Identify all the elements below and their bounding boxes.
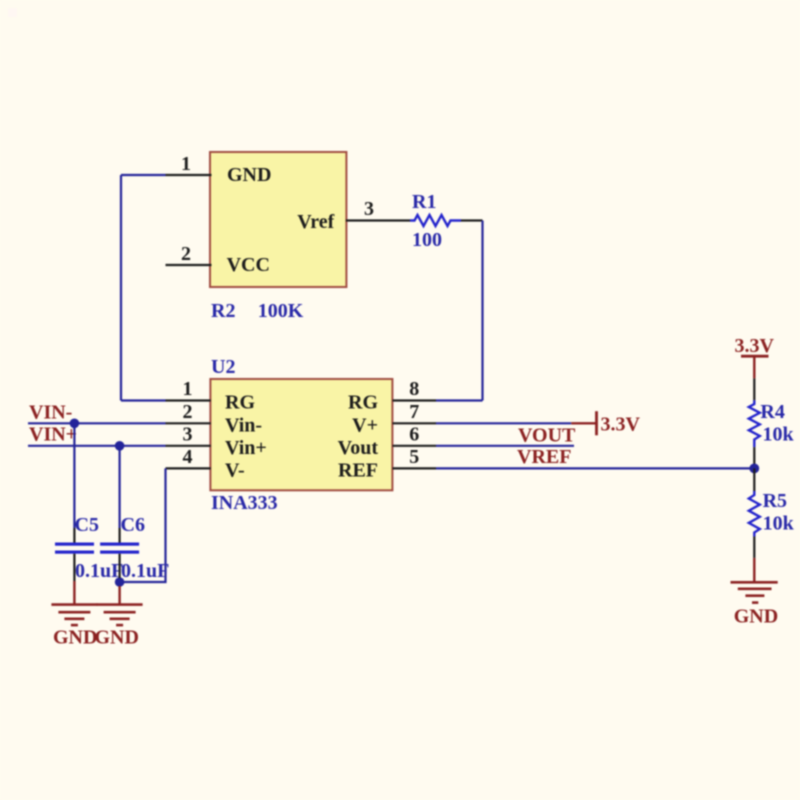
wire VIN+ dot down to C6	[118, 446, 120, 528]
svg-text:2: 2	[183, 401, 193, 423]
R2 pin 1 stub	[166, 174, 212, 176]
wire into U2 pin1	[121, 399, 166, 401]
svg-text:0.1uF: 0.1uF	[121, 560, 169, 582]
wire U2 pin6 VOUT	[436, 445, 574, 447]
svg-text:Vref: Vref	[297, 211, 334, 233]
capacitor C5 bottom pin	[73, 554, 75, 581]
wire U2 pin7 to 3.3V	[436, 422, 571, 424]
capacitor C5 top pin	[73, 528, 75, 543]
U2 pin 1 stub	[166, 399, 211, 401]
svg-text:R1: R1	[412, 191, 436, 213]
svg-text:RG: RG	[225, 392, 255, 414]
svg-text:INA333: INA333	[211, 492, 278, 514]
capacitor C6 plates	[100, 543, 139, 554]
svg-text:3.3V: 3.3V	[601, 414, 641, 436]
wire vertical down to U2 pin8	[481, 221, 483, 401]
svg-text:VOUT: VOUT	[518, 425, 576, 447]
svg-text:C5: C5	[75, 514, 99, 536]
svg-text:3: 3	[183, 423, 193, 445]
R2 pin 3 stub	[346, 219, 410, 221]
capacitor C5 plates	[55, 543, 94, 554]
wire into U2 pin8	[436, 399, 483, 401]
power port 3.3V stem (top right)	[753, 356, 755, 378]
power port 3.3V bar	[595, 411, 598, 435]
svg-text:R4: R4	[760, 401, 784, 423]
svg-text:Vin+: Vin+	[225, 437, 267, 459]
svg-text:VREF: VREF	[517, 446, 571, 468]
svg-text:REF: REF	[338, 459, 378, 481]
svg-text:6: 6	[409, 423, 419, 445]
junction dot VREF divider	[749, 464, 759, 474]
power port 3.3V lead	[571, 422, 596, 424]
ground power port stem (right)	[753, 558, 755, 582]
IC U2 body	[210, 379, 392, 490]
svg-text:100: 100	[412, 229, 442, 251]
ground power port C5 stem	[73, 581, 75, 605]
svg-text:VIN-: VIN-	[29, 402, 72, 424]
wire R1 right black	[461, 219, 483, 221]
svg-text:V+: V+	[352, 414, 378, 436]
svg-text:10k: 10k	[763, 424, 795, 446]
svg-text:2: 2	[181, 243, 191, 265]
svg-text:1: 1	[183, 378, 193, 400]
svg-text:8: 8	[409, 378, 419, 400]
ground power port C6 stem	[118, 586, 120, 605]
wire VIN+ to U2 pin 3	[28, 445, 166, 447]
U2 pin 5 stub	[393, 467, 437, 469]
svg-text:V-: V-	[225, 459, 245, 481]
wire U2 pin 4 down-left to GND node	[120, 468, 166, 582]
U2 pin 8 stub	[393, 399, 437, 401]
ground symbol (right)	[731, 582, 778, 602]
capacitor C6 bottom pin	[118, 554, 120, 578]
wire R2 pin1 vertical down to U2 pin1	[120, 175, 122, 401]
svg-text:R2: R2	[211, 300, 235, 322]
svg-text:RG: RG	[348, 392, 378, 414]
ground symbol C6	[97, 605, 143, 626]
svg-text:GND: GND	[95, 627, 139, 649]
wire VIN- dot down to C5	[73, 423, 75, 528]
wire R4 to junction	[753, 447, 755, 468]
svg-text:GND: GND	[734, 606, 778, 628]
U2 pin 4 stub	[166, 467, 211, 469]
svg-text:5: 5	[409, 446, 419, 468]
component R2 (opto/regulator block) body	[210, 152, 346, 287]
svg-text:4: 4	[183, 446, 193, 468]
wire junction to R5	[753, 468, 755, 491]
R2 pin 2 stub	[166, 264, 212, 266]
svg-text:7: 7	[409, 401, 419, 423]
resistor R4 zigzag	[749, 400, 760, 447]
svg-text:GND: GND	[227, 164, 271, 186]
resistor R1 zigzag	[410, 215, 461, 226]
faint corner mark	[8, 8, 17, 17]
svg-text:Vin-: Vin-	[225, 414, 262, 436]
svg-text:GND: GND	[53, 627, 97, 649]
capacitor C6 top pin	[118, 528, 120, 543]
power port 3.3V bar (top right)	[741, 355, 769, 358]
svg-text:VCC: VCC	[227, 254, 270, 276]
wire R5 to ground	[753, 537, 755, 558]
svg-text:10k: 10k	[763, 513, 795, 535]
U2 pin 3 stub	[166, 445, 211, 447]
svg-text:3.3V: 3.3V	[735, 335, 775, 357]
svg-text:3: 3	[364, 198, 374, 220]
junction dot VIN+ / C6	[115, 441, 125, 451]
wire 3.3V to R4	[753, 378, 755, 400]
resistor R5 zigzag	[749, 491, 760, 537]
svg-text:0.1uF: 0.1uF	[75, 560, 123, 582]
svg-text:U2: U2	[211, 356, 235, 378]
wire R2 pin1 horizontal (blue)	[121, 174, 166, 176]
svg-text:Vout: Vout	[338, 437, 379, 459]
svg-text:100K: 100K	[258, 300, 304, 322]
svg-text:1: 1	[181, 153, 191, 175]
wire U2 pin5 VREF to divider	[436, 467, 754, 469]
svg-text:VIN+: VIN+	[29, 424, 77, 446]
wire VIN- to U2 pin 2	[28, 422, 166, 424]
svg-text:R5: R5	[763, 490, 787, 512]
U2 pin 2 stub	[166, 422, 211, 424]
junction dot C6 bottom	[115, 577, 125, 587]
ground symbol C5	[51, 605, 97, 626]
U2 pin 6 stub	[393, 445, 437, 447]
junction dot VIN- / C5	[70, 419, 80, 429]
U2 pin 7 stub	[393, 422, 437, 424]
svg-text:C6: C6	[121, 514, 145, 536]
